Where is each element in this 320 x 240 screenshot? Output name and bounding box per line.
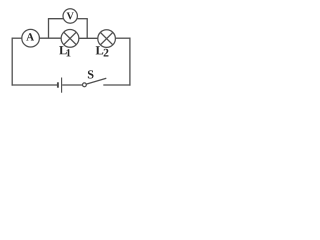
switch S: lever (open) — [86, 78, 106, 84]
wire: lamp L2 to right corner — [115, 37, 130, 39]
wire: voltmeter branch top right horizontal — [77, 18, 88, 20]
label L2 — [96, 46, 109, 56]
wire: left vertical — [11, 38, 13, 86]
voltmeter V — [63, 9, 77, 23]
wire: bottom left to battery — [12, 84, 58, 86]
battery: long plate (right) — [61, 78, 63, 93]
wire: lamp L1 to lamp L2 — [79, 37, 98, 39]
ammeter A — [22, 29, 40, 47]
label L1 — [59, 46, 70, 56]
wire: main row left of ammeter — [12, 37, 22, 39]
wire: right vertical — [129, 38, 131, 86]
lamp L1 — [61, 30, 79, 48]
lamp L2 — [98, 30, 116, 48]
wire: voltmeter branch left vertical — [48, 19, 50, 39]
label S — [88, 70, 94, 78]
wire: voltmeter branch top left horizontal — [48, 18, 64, 20]
battery: short plate (left) — [57, 82, 59, 87]
switch S: pivot circle — [83, 83, 87, 87]
wire: battery to switch — [62, 84, 82, 86]
wire: voltmeter branch right vertical — [86, 19, 88, 39]
wire: ammeter to lamp L1 — [39, 37, 61, 39]
wire: switch to bottom right — [103, 84, 130, 86]
